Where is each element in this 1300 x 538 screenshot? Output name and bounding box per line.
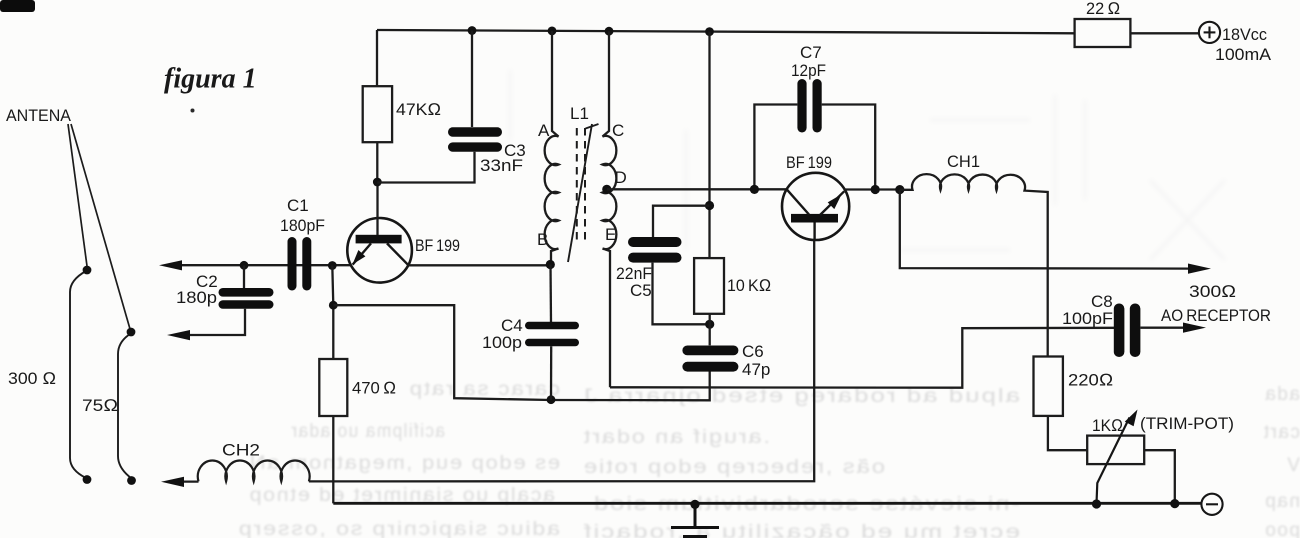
- wire: ground rail: [333, 502, 1201, 505]
- wire: 22 ohm to +terminal: [1130, 32, 1198, 34]
- wire: C2 top lead: [243, 265, 245, 288]
- wire: C8 to receptor arrow: [1140, 323, 1206, 333]
- node dot 10K bottom: [705, 320, 714, 329]
- svg-text:oãs ,rebecrep edop rotie: oãs ,rebecrep edop rotie: [582, 457, 885, 478]
- wire: 220 ohm to trimpot left: [1048, 416, 1087, 450]
- svg-text:caraс sa ratp: caraс sa ratp: [408, 379, 560, 400]
- svg-text:acifilpma uo adar: acifilpma uo adar: [290, 421, 445, 442]
- svg-text:BF 199: BF 199: [786, 153, 832, 172]
- transistor Q1 BF199: [347, 182, 412, 283]
- svg-text:B: B: [537, 230, 548, 249]
- wire: Q1 collector to L1 B node: [409, 264, 551, 266]
- svg-text:33nF: 33nF: [480, 156, 523, 175]
- capacitor C1: [288, 237, 312, 291]
- node dot wiper: [1092, 499, 1101, 508]
- scan corner mark: [0, 0, 35, 12]
- wire: C3 bottom to Q1 base node: [377, 152, 474, 183]
- wire: CH2 return to Q2 emitter: [309, 240, 814, 482]
- inductor CH2 with arrow: [161, 460, 310, 487]
- negative terminal: [1201, 494, 1222, 515]
- wire: rail to C3: [471, 31, 473, 128]
- svg-text:AO RECEPTOR: AO RECEPTOR: [1161, 306, 1271, 325]
- ghost show-through schematic smudges upper area: [510, 70, 1225, 260]
- svg-text:alpud ad rodareg etsed ojn: alpud ad rodareg etsed ojnarra J: [582, 386, 1020, 407]
- wire: top supply rail: [377, 30, 1075, 33]
- node dot emitter feedback branch: [329, 301, 338, 310]
- wire: Q2 collector side to CH1 node: [844, 188, 900, 190]
- wire: C7 left loop to base node: [754, 105, 797, 190]
- resistor 47K: [363, 86, 392, 142]
- svg-text:L1: L1: [570, 104, 589, 123]
- switch contact 300-ohm branch: [70, 271, 86, 478]
- svg-text:nap: nap: [1264, 491, 1300, 512]
- svg-text:180p: 180p: [176, 288, 217, 307]
- svg-text:V: V: [1286, 455, 1300, 476]
- svg-text:220Ω: 220Ω: [1068, 371, 1113, 390]
- node dot Q1 base: [373, 178, 382, 187]
- svg-text:A: A: [538, 121, 550, 140]
- node dot D tap: [602, 185, 611, 194]
- svg-text:D: D: [615, 168, 627, 187]
- wire: C4 bottom lead: [550, 346, 553, 400]
- svg-text:75Ω: 75Ω: [82, 396, 118, 415]
- capacitor C5: [628, 237, 682, 263]
- node dot C2 branch: [240, 261, 249, 270]
- node dot trimpot right: [1170, 499, 1179, 508]
- wire: 47K to Q1 base node: [376, 142, 378, 182]
- svg-text:(TRIM-POT): (TRIM-POT): [1140, 414, 1234, 433]
- wire: E tap output line to C8: [610, 328, 1114, 388]
- wire: main input line with arrow: [159, 260, 352, 270]
- switch contact dots: [83, 266, 136, 485]
- svg-text:10 KΩ: 10 KΩ: [727, 276, 771, 295]
- wire: D to Q2 base: [607, 188, 787, 190]
- capacitor C2: [219, 288, 274, 309]
- svg-text:300Ω: 300Ω: [1189, 282, 1236, 301]
- svg-text:cart: cart: [1262, 422, 1300, 443]
- svg-text:ANTENA: ANTENA: [6, 106, 72, 125]
- +18V terminal: [1199, 22, 1220, 43]
- capacitor C3: [448, 127, 502, 151]
- stray ink dot: [191, 109, 195, 113]
- svg-text:CH2: CH2: [222, 441, 260, 460]
- node dot L1 B / main wire: [546, 260, 555, 269]
- wire: 470 ohm to ground rail: [332, 416, 334, 503]
- inductor CH1: [900, 174, 1048, 356]
- transformer L1 left winding: [545, 31, 559, 265]
- capacitor C4: [525, 322, 579, 346]
- svg-text:47p: 47p: [742, 360, 770, 379]
- svg-text:C7: C7: [800, 43, 822, 62]
- node dot ground symbol: [690, 500, 699, 509]
- svg-text:.arugif an odart: .arugif an odart: [582, 427, 770, 448]
- svg-text:C: C: [612, 121, 624, 140]
- wire: C2 bottom lead to arrow: [167, 309, 245, 340]
- wire: C5 top lead: [653, 206, 710, 237]
- wire: top rail to 47K: [376, 30, 378, 86]
- svg-text:E: E: [605, 225, 616, 244]
- svg-text:ada: ada: [1264, 384, 1300, 405]
- svg-text:C5: C5: [630, 281, 652, 300]
- node dot C7 right: [871, 185, 880, 194]
- wire: 10K bottom to C6: [709, 314, 711, 346]
- svg-text:es edop euq ,megatnom aN: es edop euq ,megatnom aN: [248, 453, 560, 474]
- capacitor C7: [797, 79, 821, 133]
- svg-text:poo: poo: [1264, 520, 1300, 538]
- node dots on top rail: [468, 26, 714, 36]
- node dot CH1 input: [895, 185, 904, 194]
- antenna pointer lines: [68, 124, 130, 329]
- svg-text:300 Ω: 300 Ω: [8, 369, 56, 388]
- node dot C4 bottom: [547, 395, 556, 404]
- wire: C7 right loop to collector node: [822, 105, 876, 190]
- wire: C5 bottom lead to 10K bottom node: [653, 263, 710, 325]
- trim-pot 1K: [1087, 410, 1144, 504]
- svg-text:CH1: CH1: [947, 152, 980, 171]
- svg-text:12pF: 12pF: [791, 61, 826, 80]
- svg-text:ecret mu ed oãçazilitu a: ecret mu ed oãçazilitu a ,rodacif: [582, 522, 1020, 538]
- wire: B node down to C4: [549, 265, 552, 323]
- svg-text:100mA: 100mA: [1215, 45, 1272, 64]
- wire: trimpot right to ground rail: [1144, 450, 1175, 503]
- node dot C7 left: [750, 185, 759, 194]
- wire: feedback path to C4/C6 bottom: [333, 305, 709, 400]
- node dot C5 branch: [705, 201, 714, 210]
- svg-text:100p: 100p: [482, 333, 522, 352]
- resistor 10K: [694, 258, 724, 314]
- resistor 22 ohm: [1075, 19, 1131, 47]
- resistor 220 ohm: [1034, 357, 1063, 416]
- svg-text:100pF: 100pF: [1062, 309, 1113, 328]
- svg-text:1KΩ: 1KΩ: [1092, 416, 1123, 435]
- svg-text:C1: C1: [287, 196, 309, 215]
- svg-text:C6: C6: [742, 342, 764, 361]
- svg-text:47KΩ: 47KΩ: [396, 100, 441, 119]
- transistor Q2 BF199: [782, 173, 849, 240]
- ghost show-through text left column (mirrored): [237, 379, 560, 538]
- switch contact 75-ohm branch: [118, 334, 131, 478]
- wire: drop from input node: [332, 266, 333, 360]
- resistor 470 ohm: [319, 359, 347, 416]
- node dot at Q1 input: [328, 261, 337, 270]
- capacitor C8: [1114, 304, 1141, 358]
- L1 core dashed lines: [577, 128, 585, 245]
- svg-text:figura 1: figura 1: [164, 64, 257, 95]
- capacitor C6: [682, 346, 738, 372]
- svg-text:180pF: 180pF: [280, 216, 325, 235]
- transformer L1 right winding: [603, 31, 617, 387]
- svg-text:adiuc siapicnirp so ,osserp: adiuc siapicnirp so ,osserp: [237, 519, 560, 538]
- svg-text:22 Ω: 22 Ω: [1086, 0, 1120, 18]
- ground symbol: [671, 504, 719, 536]
- wire: 300 ohm output with arrow: [900, 190, 1211, 274]
- svg-text:470 Ω: 470 Ω: [352, 379, 396, 398]
- ghost show-through text right column (mirrored): [582, 384, 1300, 538]
- wire: rail down to 10K (crosses D wire): [708, 32, 710, 259]
- svg-text:BF 199: BF 199: [415, 236, 460, 255]
- svg-text:18Vcc: 18Vcc: [1222, 25, 1267, 44]
- L1 adjust line: [568, 124, 599, 262]
